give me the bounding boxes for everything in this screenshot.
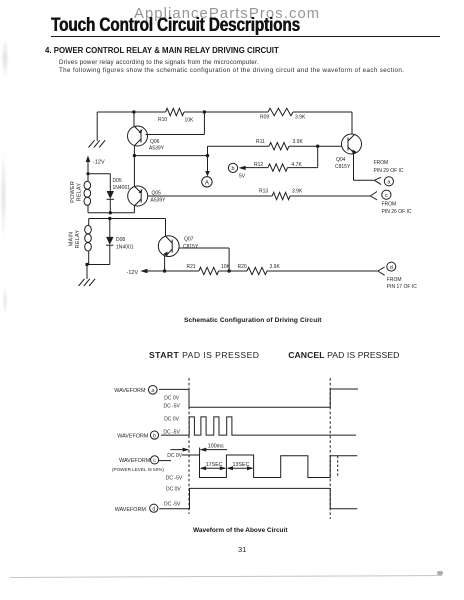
scan smudges (edge artifacts) <box>1 38 9 78</box>
title underline <box>51 36 440 38</box>
wire Q04 emitter to node a <box>354 153 382 184</box>
resistor R11 <box>256 139 303 150</box>
wire Q06 collector down <box>133 145 135 155</box>
bottom scan line <box>10 575 442 578</box>
page number 31 <box>238 545 246 554</box>
svg-text:WAVEFORM: WAVEFORM <box>114 388 146 394</box>
waveform b label <box>117 416 180 439</box>
wire main relay bottom <box>85 263 110 266</box>
waveform b trace (pulses) <box>161 417 356 435</box>
resistor R10 <box>158 108 194 123</box>
ground (bottom-left) <box>79 265 96 287</box>
transistor Q06 <box>128 126 165 152</box>
diode D05 1N4001 <box>107 174 131 213</box>
svg-text:d: d <box>152 506 155 512</box>
svg-text:CANCEL PAD IS PRESSED: CANCEL PAD IS PRESSED <box>288 350 399 360</box>
wire Q06 base loop to top rail <box>146 112 205 135</box>
START / CANCEL header <box>149 350 399 360</box>
resistor R21 <box>187 264 231 275</box>
waveform a trace <box>159 389 358 407</box>
svg-text:DC -5V: DC -5V <box>164 403 181 409</box>
dashed CANCEL line <box>329 378 331 519</box>
diode D08 1N4001 <box>106 219 134 265</box>
node c (from pin 26 of IC) <box>382 190 412 215</box>
wire Q07 base to R21/R20 junction <box>179 248 229 271</box>
svg-text:WAVEFORM: WAVEFORM <box>119 458 151 464</box>
svg-text:a: a <box>151 388 154 394</box>
svg-text:13SEC: 13SEC <box>233 462 250 468</box>
waveform d label <box>115 487 182 513</box>
node d (from pin 17 of IC) <box>387 262 417 290</box>
svg-text:DC 0V: DC 0V <box>166 487 181 493</box>
svg-text:c: c <box>153 458 156 464</box>
wire R11 line <box>208 145 342 156</box>
waveform c dashed would-be fall <box>337 456 339 478</box>
node a (from pin 29 of IC) <box>374 160 404 186</box>
transistor Q05 <box>128 186 166 206</box>
svg-text:100ms: 100ms <box>208 444 224 450</box>
watermark AppliancePartsPros.com <box>134 6 334 22</box>
svg-text:17SEC: 17SEC <box>206 462 223 468</box>
wire R13 line <box>148 192 377 200</box>
17SEC dimension <box>200 462 227 470</box>
svg-text:WAVEFORM: WAVEFORM <box>115 507 147 513</box>
page title <box>51 15 300 37</box>
transistor Q04 <box>335 134 362 170</box>
svg-text:b: b <box>153 433 156 439</box>
resistor R13 <box>259 189 303 200</box>
wire Q05 collector down <box>133 205 135 212</box>
node: junction dots top rail <box>132 110 206 113</box>
waveform c trace <box>182 455 357 478</box>
waveform d trace <box>159 488 357 508</box>
wire Q05 emitter up to collector-node line <box>133 156 135 187</box>
relay coil MAIN RELAY <box>69 219 92 265</box>
svg-text:START PAD IS PRESSED: START PAD IS PRESSED <box>149 350 259 360</box>
wire Q06 emitter to top rail <box>133 112 135 127</box>
svg-text:DC 0V: DC 0V <box>167 453 182 459</box>
caption: Schematic Configuration of Driving Circuit <box>184 317 322 324</box>
wire power relay bottom <box>88 211 134 214</box>
wire top rail <box>97 112 352 134</box>
wire bottom line <box>147 267 385 275</box>
resistor R09 <box>260 108 306 120</box>
wire main relay top <box>89 217 166 236</box>
100ms dimension <box>170 444 227 455</box>
svg-text:(POWER LEVEL IS 50%): (POWER LEVEL IS 50%) <box>112 467 164 472</box>
node b (circled) with 5V <box>228 163 245 179</box>
wire collector node line <box>133 154 210 157</box>
svg-text:DC -5V: DC -5V <box>166 476 183 482</box>
transistor Q07 <box>158 236 199 257</box>
resistor R20 <box>238 264 281 275</box>
wire Q07 emitter down <box>164 256 166 271</box>
wire power relay top <box>88 173 110 175</box>
section heading <box>45 46 279 55</box>
resistor R12 <box>245 146 318 171</box>
ground (top-left) <box>89 112 106 148</box>
svg-text:DC 0V: DC 0V <box>164 396 179 402</box>
node A (circled, mid-schematic) <box>202 156 212 187</box>
power -12V supply arrow <box>86 156 105 174</box>
svg-text:DC -5V: DC -5V <box>164 501 181 507</box>
waveform a label <box>114 386 180 410</box>
waveform c label <box>112 453 183 482</box>
caption: Waveform of the Above Circuit <box>193 527 288 534</box>
svg-text:WAVEFORM: WAVEFORM <box>117 433 149 439</box>
bottom -12V arrow <box>127 269 148 276</box>
13SEC dimension <box>227 462 254 470</box>
dashed START line <box>188 378 190 514</box>
relay coil POWER RELAY <box>70 174 91 213</box>
svg-text:DC 0V: DC 0V <box>164 416 179 422</box>
